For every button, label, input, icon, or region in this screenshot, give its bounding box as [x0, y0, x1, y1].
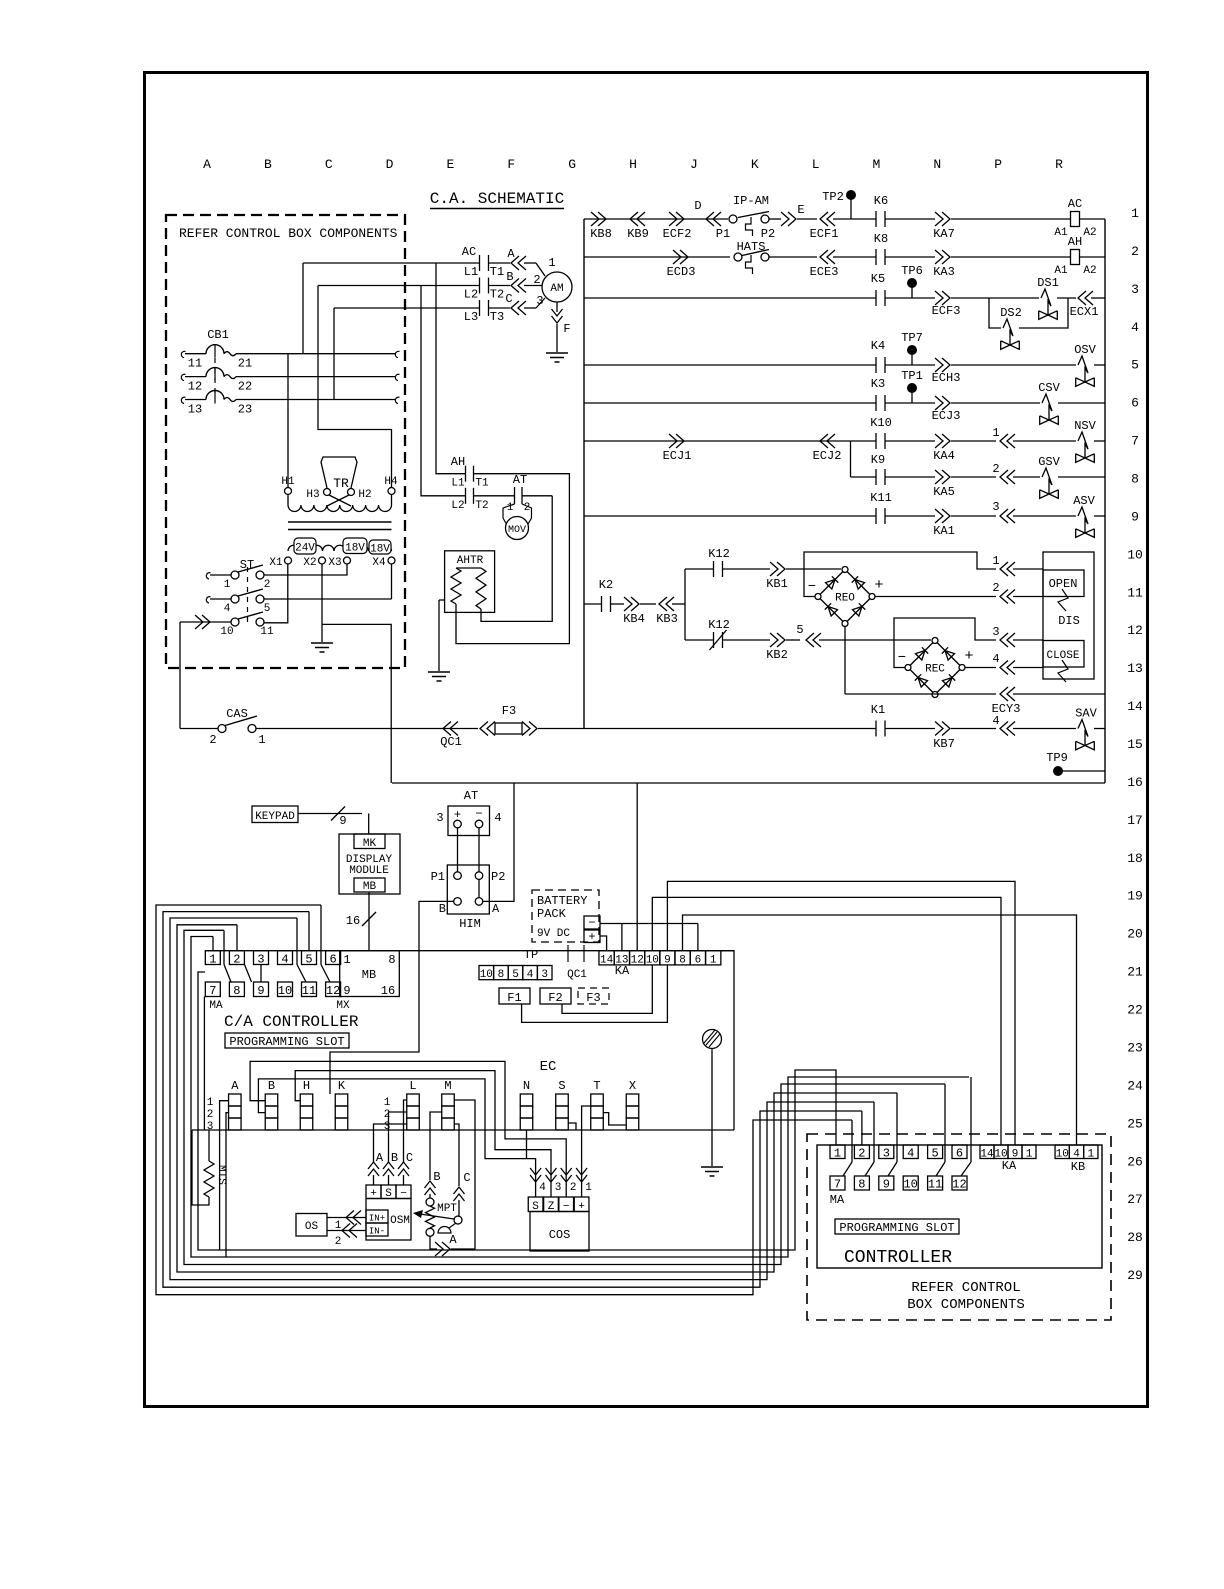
module OSM terminals + S -: [366, 1185, 381, 1199]
controller terminal 5: [928, 1145, 943, 1159]
svg-text:9: 9: [339, 814, 346, 828]
svg-text:8: 8: [498, 969, 505, 981]
bundle wire: [170, 918, 874, 1280]
svg-text:K10: K10: [870, 416, 892, 430]
wire to EC A row1: [220, 1101, 229, 1250]
svg-text:AT: AT: [513, 473, 527, 487]
svg-text:29: 29: [1127, 1268, 1143, 1283]
svg-text:11: 11: [1127, 585, 1143, 600]
rung 3 wire: [584, 297, 876, 299]
svg-text:10: 10: [278, 984, 292, 998]
wire KB1 node down to REO left corner: [804, 569, 815, 597]
connector KB4: [624, 597, 632, 611]
wire ST11 to X1: [264, 564, 288, 623]
svg-text:COS: COS: [549, 1228, 571, 1242]
svg-text:4: 4: [992, 714, 999, 728]
svg-text:E: E: [447, 157, 455, 172]
TR primary winding: [288, 505, 392, 511]
svg-text:19: 19: [1127, 889, 1143, 904]
svg-text:28: 28: [1127, 1230, 1143, 1245]
svg-text:A2: A2: [1083, 265, 1096, 277]
fuse F2: [540, 988, 571, 1004]
svg-text:TP2: TP2: [822, 190, 844, 204]
connector KA4: [935, 434, 943, 448]
MB terminal 3: [254, 951, 269, 965]
HIM block: [447, 865, 489, 914]
K12 upper branch wire: [685, 568, 714, 570]
MB terminal 2: [229, 951, 244, 965]
svg-text:16: 16: [346, 914, 360, 928]
wire REC left corner loop to wire 3: [894, 618, 996, 668]
svg-text:22: 22: [1127, 1003, 1143, 1018]
svg-text:ECE3: ECE3: [810, 265, 839, 279]
svg-text:18V: 18V: [370, 544, 390, 556]
svg-text:KB7: KB7: [933, 737, 955, 751]
svg-text:+: +: [874, 577, 883, 594]
svg-text:11: 11: [302, 984, 316, 998]
svg-text:+: +: [964, 648, 973, 665]
test point TP7 stem: [911, 354, 913, 365]
svg-text:X1: X1: [269, 557, 283, 569]
svg-text:AH: AH: [451, 455, 465, 469]
wire B-row down to AH L2: [421, 286, 466, 496]
relay element CLOSE: [1043, 641, 1084, 668]
breaker mechanical tie (dashed): [214, 358, 216, 394]
wire AHTR right element to T2 node: [481, 496, 552, 622]
svg-text:X: X: [629, 1079, 636, 1093]
svg-text:2: 2: [233, 952, 240, 966]
fuse F1: [499, 988, 530, 1004]
svg-text:1: 1: [507, 502, 514, 514]
protective earth circle: [703, 1030, 722, 1049]
svg-text:K5: K5: [871, 272, 885, 286]
rung 6 wire: [584, 402, 876, 404]
svg-text:4: 4: [1131, 320, 1139, 335]
svg-text:KA5: KA5: [933, 485, 955, 499]
wire KA row to EC ground rail: [721, 951, 734, 1130]
svg-text:C: C: [463, 1171, 470, 1185]
svg-text:T3: T3: [490, 310, 504, 324]
wire OSM B to EC L2: [389, 1112, 407, 1162]
wire row B to AC contact: [318, 285, 480, 287]
svg-text:G: G: [568, 157, 576, 172]
svg-text:B: B: [433, 1170, 440, 1184]
connector ECE3: [827, 250, 835, 264]
coil AH: [1071, 250, 1080, 265]
svg-text:OSM: OSM: [390, 1215, 410, 1227]
connector ECF1: [827, 212, 835, 226]
svg-text:4: 4: [992, 652, 999, 666]
K12 lower branch wire: [685, 639, 714, 641]
svg-text:9: 9: [664, 955, 671, 967]
TR primary crossover wires: [329, 495, 351, 506]
svg-text:5: 5: [512, 969, 519, 981]
svg-text:H2: H2: [358, 489, 371, 501]
test point TP1 stem: [911, 392, 913, 403]
svg-text:A: A: [492, 902, 500, 916]
bundle wire 7 (MA side): [198, 972, 836, 1250]
valve DS1: [1041, 289, 1051, 315]
svg-text:8: 8: [858, 1178, 865, 1192]
EC X jog: [603, 1113, 626, 1125]
svg-text:8: 8: [1131, 472, 1139, 487]
EC terminal stack X: [626, 1094, 639, 1106]
wire X4 down: [391, 564, 393, 599]
svg-text:2: 2: [570, 1182, 577, 1194]
wire MPT C chevron: [454, 1194, 465, 1201]
svg-text:ECF2: ECF2: [663, 227, 692, 241]
wire ST2 to X3: [264, 564, 347, 575]
svg-text:KB9: KB9: [627, 227, 649, 241]
svg-text:TP7: TP7: [901, 331, 923, 345]
svg-text:−: −: [808, 579, 816, 595]
svg-text:3: 3: [555, 1182, 562, 1194]
svg-text:4: 4: [907, 1147, 914, 1161]
svg-text:6: 6: [329, 952, 336, 966]
EC terminal stack T: [591, 1094, 604, 1106]
svg-text:10: 10: [646, 955, 659, 967]
svg-text:1: 1: [1131, 206, 1139, 221]
rectifier bridge REC: [908, 641, 935, 668]
controller terminal 11: [928, 1176, 943, 1190]
wire MPT A chevron: [430, 1236, 437, 1249]
sensor OS box: [296, 1214, 327, 1237]
controller terminal 10: [903, 1176, 918, 1190]
svg-text:KA7: KA7: [933, 227, 955, 241]
svg-text:4: 4: [539, 1182, 546, 1194]
rung 2 wire: [584, 256, 730, 258]
bundle entries into controller: [851, 1120, 853, 1162]
svg-text:C: C: [406, 1151, 413, 1165]
svg-text:3: 3: [883, 1147, 890, 1161]
valve GSV: [1042, 468, 1052, 494]
svg-text:MB: MB: [363, 881, 377, 893]
ground below earth circle: [701, 1166, 723, 1168]
svg-text:12: 12: [326, 984, 340, 998]
valve DS2: [1003, 319, 1013, 345]
controller terminal 6: [952, 1145, 967, 1159]
svg-text:ECX1: ECX1: [1070, 305, 1099, 319]
svg-text:A: A: [203, 157, 211, 172]
ladder left rail: [583, 219, 585, 729]
wire X2 ground node to row16 vertical: [322, 624, 391, 783]
svg-text:GSV: GSV: [1038, 455, 1060, 469]
wire battery - to KA13 and KA6: [600, 923, 698, 925]
svg-text:CAS: CAS: [226, 707, 248, 721]
wire AM to ground F: [556, 302, 558, 312]
valve OSV: [1078, 356, 1088, 382]
module COS terminals S Z - +: [528, 1197, 543, 1212]
svg-text:K12: K12: [708, 618, 730, 632]
svg-text:21: 21: [1127, 965, 1143, 980]
svg-text:C: C: [505, 292, 512, 306]
bundle wire: [163, 912, 862, 1288]
wire to EC A row2: [226, 1113, 228, 1257]
svg-text:L2: L2: [451, 500, 464, 512]
svg-text:11: 11: [928, 1178, 942, 1192]
TR terminal X1: [285, 557, 292, 564]
test point TP2: [846, 190, 856, 200]
svg-text:2: 2: [858, 1147, 865, 1161]
svg-text:OPEN: OPEN: [1049, 577, 1078, 591]
svg-text:3: 3: [992, 625, 999, 639]
svg-text:E: E: [797, 203, 804, 217]
svg-text:KB4: KB4: [623, 612, 645, 626]
svg-text:SAV: SAV: [1075, 707, 1097, 721]
svg-text:N: N: [933, 157, 941, 172]
svg-text:F3: F3: [586, 991, 600, 1005]
connector MB terminal strip top line: [205, 950, 734, 952]
controller programming slot: [835, 1219, 959, 1234]
svg-text:1: 1: [1087, 1149, 1094, 1161]
svg-text:K12: K12: [708, 547, 730, 561]
ST pole 10-11: [231, 618, 239, 626]
branch vertical to K12 contacts: [684, 569, 686, 640]
contact K1: [875, 721, 877, 737]
wire EC T to COS + (wire 1): [582, 1106, 591, 1183]
svg-text:7: 7: [209, 984, 216, 998]
svg-text:A: A: [507, 247, 515, 261]
svg-text:IN-: IN-: [369, 1227, 385, 1237]
svg-text:QC1: QC1: [567, 969, 587, 981]
svg-text:8: 8: [679, 955, 686, 967]
svg-text:K1: K1: [871, 703, 885, 717]
connector KB8: [591, 212, 599, 226]
svg-text:P2: P2: [491, 870, 505, 884]
svg-text:1: 1: [710, 955, 717, 967]
svg-text:C.A. SCHEMATIC: C.A. SCHEMATIC: [430, 190, 564, 208]
svg-text:MA: MA: [830, 1193, 845, 1207]
svg-text:P1: P1: [716, 227, 730, 241]
connector KA5: [935, 470, 943, 484]
wire keypad to display module: [298, 813, 362, 815]
svg-text:DIS: DIS: [1058, 614, 1080, 628]
svg-text:NSV: NSV: [1074, 419, 1096, 433]
varistor MOV: [503, 504, 515, 525]
svg-text:18V: 18V: [345, 543, 365, 555]
svg-text:ECF1: ECF1: [810, 227, 839, 241]
svg-text:23: 23: [238, 403, 252, 417]
svg-text:B: B: [391, 1151, 398, 1165]
wire AC T2 to ammeter (B): [489, 285, 511, 287]
COS input chevrons 4 3 2 1: [530, 1168, 541, 1175]
contact K6: [875, 211, 877, 227]
svg-text:KEYPAD: KEYPAD: [255, 811, 295, 823]
EC terminal stack K: [335, 1094, 348, 1106]
MB terminal 6: [326, 951, 341, 965]
bundle wire: [156, 905, 852, 1295]
MB terminal 9: [254, 982, 269, 997]
svg-text:L3: L3: [464, 310, 478, 324]
svg-text:24: 24: [1127, 1078, 1143, 1093]
svg-text:H3: H3: [306, 489, 319, 501]
svg-text:A: A: [376, 1151, 384, 1165]
wire EC N bottom to COS S wire: [526, 1130, 528, 1159]
svg-text:K6: K6: [874, 194, 888, 208]
contact K12 (NO): [713, 561, 715, 577]
svg-text:A2: A2: [1083, 227, 1096, 239]
svg-text:BOX COMPONENTS: BOX COMPONENTS: [907, 1297, 1025, 1313]
svg-text:16: 16: [1127, 775, 1143, 790]
contact K3: [875, 395, 877, 411]
wire battery + to KA14: [600, 936, 607, 951]
wire AH T1 loop right: [456, 474, 569, 644]
wire earth circle down: [711, 1049, 713, 1167]
svg-text:J: J: [690, 157, 698, 172]
svg-text:12: 12: [952, 1178, 966, 1192]
ST pole 4-5: [231, 595, 239, 603]
svg-text:K: K: [751, 157, 759, 172]
svg-text:X4: X4: [372, 557, 386, 569]
svg-text:20: 20: [1127, 927, 1143, 942]
wire REC bottom on rung14: [934, 694, 936, 696]
display module: [339, 834, 400, 894]
svg-text:8: 8: [388, 953, 395, 967]
svg-text:AH: AH: [1068, 235, 1082, 249]
svg-text:4: 4: [281, 952, 288, 966]
connector ECF2: [669, 212, 677, 226]
svg-text:2: 2: [1131, 244, 1139, 259]
connector KB1: [770, 562, 778, 576]
svg-text:18: 18: [1127, 851, 1143, 866]
svg-text:4: 4: [224, 603, 231, 615]
svg-text:22: 22: [238, 380, 252, 394]
ST pole 1-2: [231, 571, 239, 579]
svg-text:1: 1: [343, 953, 350, 967]
relay box outer DIS: [1043, 552, 1094, 679]
rung 8 wire: [851, 476, 877, 478]
breaker pole CB1 11-21: [181, 351, 185, 357]
svg-text:A1: A1: [1054, 227, 1068, 239]
TR core: [288, 521, 392, 523]
EC terminal stack S: [556, 1094, 569, 1106]
rung 14 wire ECY3: [845, 693, 996, 695]
svg-text:K2: K2: [599, 578, 613, 592]
fuse F3 slot dashed: [578, 988, 609, 1004]
TR 24V tap label: [294, 538, 316, 554]
valve CSV: [1042, 394, 1052, 420]
svg-text:CSV: CSV: [1038, 381, 1060, 395]
svg-text:QC1: QC1: [440, 735, 462, 749]
MB terminal 8: [229, 982, 244, 997]
svg-text:ECJ2: ECJ2: [813, 449, 842, 463]
svg-text:AC: AC: [1068, 197, 1082, 211]
svg-text:4: 4: [527, 969, 534, 981]
svg-text:12: 12: [631, 955, 644, 967]
svg-text:P1: P1: [431, 870, 445, 884]
svg-text:M: M: [873, 157, 881, 172]
svg-text:3: 3: [257, 952, 264, 966]
svg-text:ECJ3: ECJ3: [932, 409, 961, 423]
svg-text:24V: 24V: [295, 543, 315, 555]
svg-text:+: +: [588, 930, 595, 944]
svg-text:9: 9: [883, 1178, 890, 1192]
ground below X2: [311, 642, 333, 644]
battery - terminal: [584, 916, 600, 929]
svg-text:14: 14: [1127, 699, 1143, 714]
wire AC T3 to ammeter (C): [489, 307, 511, 309]
svg-text:2: 2: [533, 273, 540, 287]
wire AHTR box to ground: [439, 599, 445, 601]
connector ECJ2: [827, 434, 835, 448]
heater AHTR: [445, 551, 495, 613]
svg-text:2: 2: [335, 1236, 342, 1248]
svg-text:B: B: [439, 902, 446, 916]
svg-text:3: 3: [436, 811, 443, 825]
controller dashed box (refer control box components): [807, 1134, 1111, 1320]
svg-text:A: A: [449, 1233, 457, 1247]
wire OSM A to EC L3: [374, 1124, 407, 1162]
controller terminal 9: [879, 1176, 894, 1190]
breaker pole CB1 13-23: [181, 397, 185, 403]
svg-text:10: 10: [220, 626, 233, 638]
controller terminal 7: [830, 1176, 845, 1190]
svg-text:7: 7: [1131, 434, 1139, 449]
DS1 bypass loop with DS2: [989, 298, 1001, 328]
svg-text:C/A CONTROLLER: C/A CONTROLLER: [224, 1013, 359, 1031]
svg-text:MTS: MTS: [215, 1165, 227, 1185]
wire ST10 down to CAS rung: [179, 622, 181, 729]
svg-text:MX: MX: [336, 1000, 350, 1012]
svg-text:6: 6: [956, 1147, 963, 1161]
controller KA terminal group: [980, 1145, 994, 1159]
contact K2: [601, 596, 603, 612]
wire EC B row1 to COS - (loop): [250, 1061, 566, 1183]
svg-text:5: 5: [931, 1147, 938, 1161]
svg-text:MPT: MPT: [437, 1203, 457, 1215]
connector KB9: [637, 212, 645, 226]
TR 18V tap label 2: [369, 540, 391, 554]
test point TP7: [907, 345, 917, 355]
svg-text:B: B: [264, 157, 272, 172]
wire phase C feed: [333, 308, 335, 400]
svg-text:2: 2: [384, 1109, 391, 1121]
connector QC1: [450, 722, 458, 736]
svg-text:T1: T1: [475, 478, 489, 490]
EC terminal stack B: [265, 1094, 278, 1106]
svg-text:MOV: MOV: [508, 525, 526, 536]
svg-text:TP6: TP6: [901, 264, 923, 278]
test point TP9: [1053, 766, 1063, 776]
svg-text:KB1: KB1: [766, 577, 788, 591]
svg-text:H4: H4: [384, 476, 398, 488]
svg-text:B: B: [268, 1079, 275, 1093]
row 16 long wire: [392, 782, 1105, 784]
svg-text:BATTERY: BATTERY: [537, 894, 587, 908]
wire AC T1 to ammeter (A): [489, 262, 511, 264]
coil AC: [1071, 212, 1080, 227]
ground below AM: [546, 352, 568, 354]
wire F3 to K1: [538, 728, 876, 730]
breaker pole CB1 12-22: [181, 374, 185, 380]
svg-text:ECD3: ECD3: [667, 265, 696, 279]
svg-text:1: 1: [834, 1147, 841, 1161]
MPT wiper arrow: [420, 1214, 454, 1219]
controller terminal 8: [854, 1176, 869, 1190]
svg-text:H: H: [629, 157, 637, 172]
svg-text:REO: REO: [835, 593, 855, 605]
svg-text:KB: KB: [1071, 1160, 1085, 1174]
svg-text:PACK: PACK: [537, 907, 567, 921]
svg-text:KA: KA: [615, 964, 630, 978]
module OSM body: [366, 1199, 411, 1241]
svg-text:KA4: KA4: [933, 449, 955, 463]
svg-text:23: 23: [1127, 1040, 1143, 1055]
EC terminal bus: [192, 1129, 734, 1131]
MPT bell: [438, 1227, 451, 1233]
svg-text:L2: L2: [464, 288, 478, 302]
wire CAS to fuse F3: [256, 728, 478, 730]
